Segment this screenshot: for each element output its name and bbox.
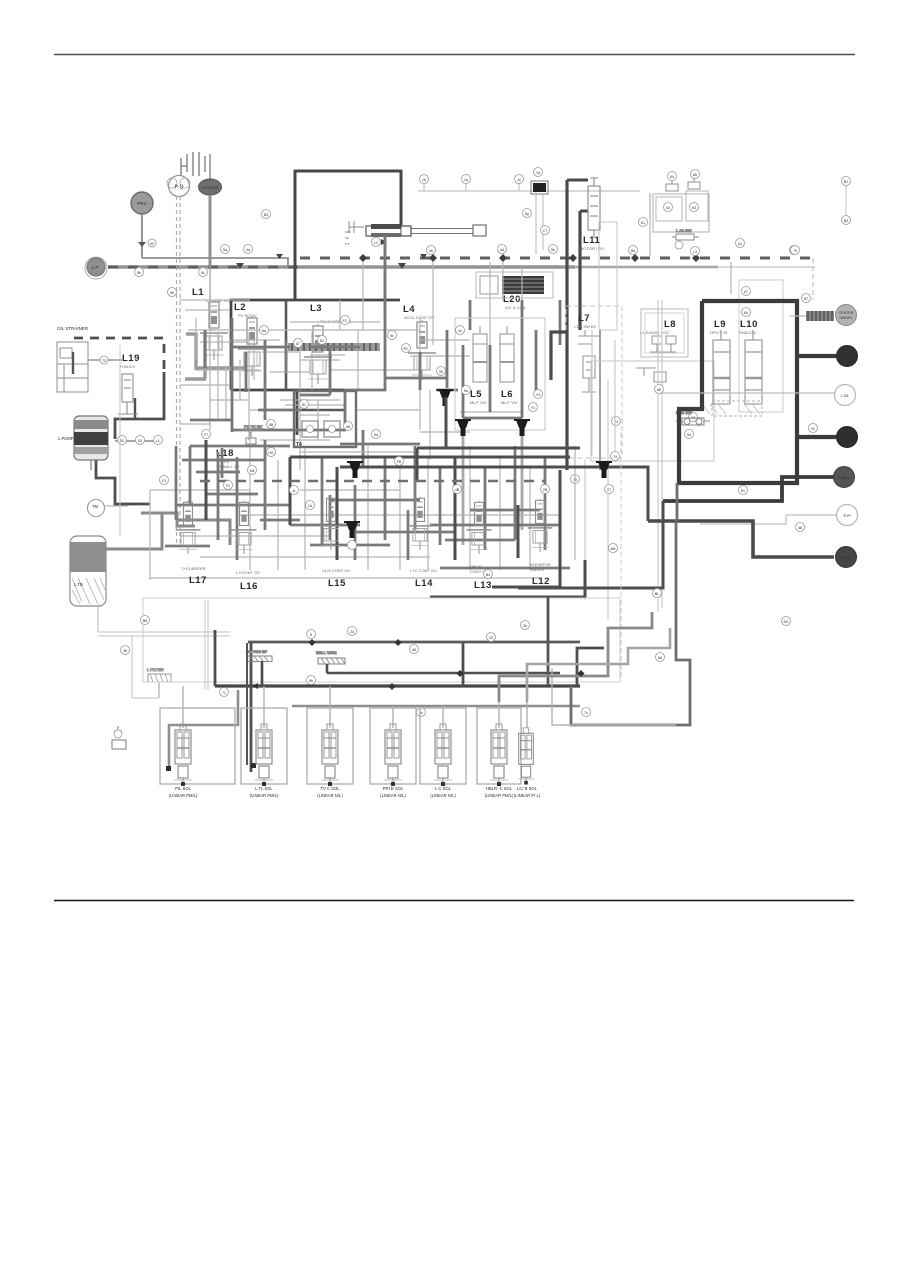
svg-text:SWIVEL: SWIVEL (530, 567, 546, 572)
motor TM (88, 500, 105, 517)
wire pilot dashed band2 (200, 480, 545, 483)
svg-text:50: 50 (120, 439, 124, 443)
svg-text:· ·: · · (345, 241, 349, 246)
L11 box outline (599, 222, 617, 330)
hose plug circle1 (790, 311, 834, 321)
wire P.Q drop dashed ladder (177, 196, 181, 545)
svg-text:61: 61 (641, 221, 645, 225)
wire stair light (552, 668, 676, 725)
wire stair loop gray (571, 483, 690, 725)
svg-text:46: 46 (412, 648, 416, 652)
drain mark (112, 726, 126, 749)
svg-text:MOTOR I GV: MOTOR I GV (580, 246, 604, 251)
svg-text:L C SOL: L C SOL (435, 786, 452, 791)
svg-text:9c: 9c (390, 334, 394, 338)
wires mesh band2 light (150, 430, 575, 580)
port 97 (462, 386, 471, 395)
svg-text:PR TK BK: PR TK BK (244, 424, 262, 429)
wire bell trunk (327, 664, 560, 673)
engine stub pipes (181, 152, 210, 180)
svg-text:CV/TGS BP: CV/TGS BP (246, 649, 268, 654)
svg-text:5a: 5a (223, 248, 227, 252)
valve L14 (408, 497, 433, 550)
svg-text:B4: B4 (264, 213, 268, 217)
port 94b (685, 430, 694, 439)
wire upper pilot line (142, 258, 288, 267)
port 60b (742, 308, 751, 317)
motor circle7 (836, 547, 857, 568)
port 23 (487, 633, 496, 642)
svg-text:(LINEAR N/L): (LINEAR N/L) (317, 793, 343, 798)
solenoid valve black F (344, 522, 360, 538)
svg-text:8a: 8a (631, 249, 635, 253)
box sol1 (160, 708, 235, 784)
svg-text:(LINEAR PM/L): (LINEAR PM/L) (169, 793, 198, 798)
bottom horizontal rule (54, 900, 854, 902)
svg-text:BN: BN (611, 547, 616, 551)
svg-text:B6: B6 (143, 619, 147, 623)
wire thick boom trunk (295, 171, 401, 300)
valve L3 (304, 324, 332, 384)
svg-text:T+CL/BDFER: T+CL/BDFER (181, 566, 206, 571)
port L2a (372, 238, 381, 247)
wire stair S2 (527, 628, 670, 702)
svg-text:L1/S SW BV: L1/S SW BV (574, 324, 597, 329)
svg-text:1a: 1a (464, 178, 468, 182)
wire pump port row (115, 440, 161, 442)
wire return trunk dark (215, 684, 580, 687)
condenser L20 (476, 272, 553, 298)
svg-text:SWIVEL: SWIVEL (839, 316, 853, 320)
svg-text:4B: 4B (269, 423, 274, 427)
wire L7 inner riser (599, 330, 601, 470)
svg-text:TV C SOL: TV C SOL (320, 786, 340, 791)
wires mesh band1 light (180, 193, 731, 470)
svg-text:60: 60 (150, 242, 154, 246)
svg-text:BG: BG (783, 620, 788, 624)
port 1d (534, 168, 543, 177)
box L5 L6 (455, 318, 545, 430)
solenoid HBLR (490, 724, 508, 786)
check valve block (533, 183, 546, 192)
port 66 (691, 170, 700, 179)
bar L3 striped (288, 343, 380, 351)
svg-text:L.TB: L.TB (74, 582, 83, 587)
port 34b (114, 730, 122, 738)
box sol4 (370, 708, 416, 784)
port Y2 (689, 413, 698, 422)
port 64 (668, 172, 677, 181)
valve L8 parts (636, 336, 676, 382)
wire pump outlet trunk (108, 265, 575, 268)
cylinder left stubs (345, 221, 364, 246)
svg-text:74: 74 (613, 455, 617, 459)
svg-text:L8: L8 (664, 319, 676, 330)
wire strainer to block (88, 359, 122, 361)
svg-text:27: 27 (607, 488, 611, 492)
junction diamonds on trunk (359, 254, 700, 262)
wire stair 577 (577, 648, 604, 686)
solenoid LC (434, 724, 452, 786)
wire trunk branch left (231, 300, 400, 390)
port 50 (118, 436, 127, 445)
wire light risers L7 (585, 330, 615, 620)
svg-text:L5: L5 (470, 389, 482, 400)
box sol2 (241, 708, 287, 784)
cylinder L5 pair (473, 326, 514, 382)
wires mesh band2 dark (206, 397, 663, 597)
svg-text:4d: 4d (500, 248, 504, 252)
port 1c (515, 175, 524, 184)
wire L2 frame bottom (231, 389, 345, 392)
wire stair right dark (547, 597, 550, 685)
wire pilot risers (424, 183, 519, 191)
svg-text:73: 73 (102, 359, 106, 363)
gauge P.Q (169, 176, 190, 197)
assorted port labels (121, 210, 791, 662)
svg-text:LC/ B SOL: LC/ B SOL (517, 786, 538, 791)
wire branch swing motor (797, 354, 836, 358)
wire L11 feed (567, 180, 588, 211)
manifold top fittings (666, 177, 700, 191)
wire light circle6 (700, 515, 836, 524)
port 24 (348, 627, 357, 636)
shuttle L13SW (676, 410, 710, 425)
bell valve (316, 650, 345, 664)
wires mesh band2 medium (165, 440, 570, 568)
motor circle2 (837, 346, 858, 367)
svg-text:PRI B SOL: PRI B SOL (383, 786, 404, 791)
wire trunk dark dashes (108, 266, 300, 269)
port 61 (639, 218, 648, 227)
wire L1 gray wrap (185, 334, 246, 379)
port 83 (629, 246, 638, 255)
svg-text:L2: L2 (374, 241, 378, 245)
port 57 (790, 246, 799, 255)
svg-text:(LINEAR P/ L): (LINEAR P/ L) (514, 793, 541, 798)
svg-text:23: 23 (489, 636, 493, 640)
valve L17 (176, 501, 201, 554)
wire PRV drop (141, 214, 143, 258)
manifold cell 1 (656, 197, 682, 221)
valve L15 (319, 497, 344, 550)
svg-text:H BLK/V: H BLK/V (120, 364, 136, 369)
wire trunk light continuation (575, 266, 718, 269)
port 7c (582, 708, 591, 717)
port 75 (571, 475, 580, 484)
wire thick L3 stub (551, 332, 567, 380)
pump L.P (85, 257, 107, 279)
port 62 (664, 203, 673, 212)
wire light circle3 (660, 392, 835, 394)
solenoid PRIB (384, 724, 402, 786)
svg-text:L13: L13 (474, 580, 492, 591)
svg-text:9A: 9A (658, 656, 663, 660)
wire L19 valve drop (134, 398, 136, 419)
svg-text:4B: 4B (455, 488, 460, 492)
svg-text:4c: 4c (458, 329, 462, 333)
wire pump lines (106, 513, 230, 549)
svg-text:L+C CONT GV: L+C CONT GV (410, 568, 437, 573)
oil cooler (199, 179, 222, 195)
solenoid TVC (321, 724, 339, 786)
port 8y (523, 209, 532, 218)
svg-text:L2: L2 (234, 302, 246, 313)
svg-text:F2: F2 (226, 484, 230, 488)
svg-text:(LINEAR N/L): (LINEAR N/L) (430, 793, 456, 798)
wire branch circle4 (797, 435, 836, 439)
port 91 (809, 424, 818, 433)
svg-text:T.MO R: T.MO R (841, 436, 854, 440)
svg-text:(LINEAR PM/L): (LINEAR PM/L) (485, 793, 514, 798)
box sol3 (307, 708, 353, 784)
wire return trunk gray (292, 705, 580, 708)
svg-text:HBLR- C SOL: HBLR- C SOL (486, 786, 513, 791)
svg-text:1A: 1A (308, 504, 313, 508)
solenoid PIL (174, 724, 192, 786)
svg-text:62: 62 (666, 206, 670, 210)
port Y1 (529, 403, 538, 412)
solenoid LTL (255, 724, 273, 786)
swing cylinder assembly (366, 225, 486, 236)
box L7 (566, 306, 622, 458)
svg-text:R.PI: R.PI (844, 514, 851, 518)
wire right dashed drop (812, 258, 814, 300)
gauge circle6 (837, 505, 858, 526)
wire cooler drop (209, 195, 212, 267)
svg-text:4b: 4b (429, 249, 433, 253)
svg-text:5b: 5b (551, 248, 555, 252)
svg-text:1d: 1d (536, 171, 540, 175)
svg-text:9d: 9d (374, 433, 378, 437)
svg-text:L3: L3 (693, 250, 697, 254)
svg-text:L14: L14 (415, 578, 433, 589)
svg-text:B4: B4 (486, 573, 490, 577)
svg-text:FC: FC (343, 319, 348, 323)
wire left riser dark (215, 630, 463, 772)
svg-text:2B: 2B (543, 488, 548, 492)
hydraulic tank (70, 536, 106, 606)
oil strainer (57, 342, 88, 392)
svg-text:71: 71 (222, 691, 226, 695)
valve L7 parts (578, 330, 600, 392)
svg-text:9b: 9b (309, 679, 313, 683)
motor circle1 center swivel (836, 305, 857, 326)
motor circle5 (834, 467, 855, 488)
svg-text:64: 64 (670, 175, 674, 179)
port 48b (796, 523, 805, 532)
port 34 (348, 541, 357, 550)
svg-text:L6: L6 (501, 389, 513, 400)
port 44 (498, 245, 507, 254)
port 63 (690, 203, 699, 212)
svg-text:B3: B3 (844, 219, 848, 223)
port 53 (136, 436, 145, 445)
svg-text:L3: L3 (310, 303, 322, 314)
cylinder L9 (713, 330, 730, 404)
main pump L.PUMP (58, 416, 108, 460)
svg-text:L1 S/ASSY LGV: L1 S/ASSY LGV (640, 330, 669, 335)
svg-text:79: 79 (793, 249, 797, 253)
svg-text:1b: 1b (422, 178, 426, 182)
svg-text:A1: A1 (738, 242, 742, 246)
svg-text:L19: L19 (122, 353, 140, 364)
block L19 border (74, 338, 164, 372)
port 60 (148, 239, 156, 247)
svg-text:CL/S CONT GV: CL/S CONT GV (322, 568, 350, 573)
box L8 (641, 309, 688, 357)
wire tank return light (119, 345, 121, 536)
svg-text:Y3: Y3 (536, 393, 540, 397)
svg-text:9a: 9a (464, 389, 468, 393)
wire sol risers (183, 686, 527, 728)
cylinder L10 (745, 330, 762, 404)
svg-text:7c: 7c (584, 711, 588, 715)
port 65 (675, 241, 683, 249)
wire pump drain (90, 460, 92, 470)
wire swing drop (384, 236, 387, 318)
wires mesh band1 medium (190, 235, 560, 545)
cylinder head block (371, 224, 401, 229)
svg-text:87: 87 (296, 342, 300, 346)
port L3c (691, 247, 700, 256)
svg-text:BELL V/GN: BELL V/GN (316, 650, 337, 655)
svg-text:66: 66 (693, 173, 697, 177)
box sol5 (420, 708, 466, 784)
valve L19 body (118, 374, 138, 414)
svg-text:L1: L1 (192, 287, 204, 298)
filter cap (240, 424, 262, 444)
port 85 (655, 385, 664, 394)
svg-text:M4: M4 (250, 469, 255, 473)
svg-text:CENTER: CENTER (839, 311, 854, 315)
box lower region (143, 598, 620, 682)
solenoid valve black D (347, 462, 363, 478)
wire L3 bottom bar (297, 409, 345, 411)
wire cushion stem (261, 661, 264, 686)
svg-text:91: 91 (811, 427, 815, 431)
wire return trunk upper (248, 641, 580, 644)
port 73 (100, 356, 108, 364)
port B1 (842, 177, 851, 186)
valve block T4 loop (294, 391, 356, 447)
svg-text:82: 82 (320, 339, 324, 343)
port 71 (220, 688, 229, 697)
svg-text:53: 53 (138, 439, 142, 443)
svg-text:67: 67 (744, 290, 748, 294)
svg-text:(LINEAR PM/L): (LINEAR PM/L) (250, 793, 279, 798)
svg-text:85: 85 (657, 388, 661, 392)
svg-text:87: 87 (804, 297, 808, 301)
port Y4 (612, 417, 621, 426)
svg-text:RC: RC (403, 347, 409, 351)
port 48 (427, 246, 436, 255)
svg-text:LL: LL (156, 439, 160, 443)
svg-text:4a: 4a (246, 248, 250, 252)
svg-text:OIL STRAINER: OIL STRAINER (57, 326, 89, 331)
box L8 outer (591, 361, 714, 461)
svg-text:L FILTER: L FILTER (147, 667, 164, 672)
svg-text:PIL SOL: PIL SOL (175, 786, 191, 791)
svg-text:L15: L15 (328, 578, 346, 589)
wire mid riser pair (536, 192, 543, 254)
wire pump drain loop (96, 458, 150, 504)
port 1a (462, 175, 471, 184)
svg-text:8y: 8y (525, 212, 529, 216)
wire light risers center (658, 300, 662, 612)
solenoid valve black C (514, 420, 530, 436)
svg-text:HG: HG (268, 451, 274, 455)
svg-text:6a: 6a (262, 329, 266, 333)
relief valve PRV (131, 192, 153, 214)
wire L3 drop vertical (296, 392, 299, 435)
svg-text:B1: B1 (844, 180, 848, 184)
svg-text:4H: 4H (346, 425, 351, 429)
valve L16 (232, 501, 257, 554)
svg-text:F1: F1 (162, 479, 166, 483)
manifold cell 2 (686, 191, 708, 221)
svg-text:8: 8 (310, 633, 312, 637)
wire stair S1 (499, 612, 652, 702)
valve L1 (200, 300, 228, 360)
svg-text:HPV/T JS: HPV/T JS (710, 330, 728, 335)
svg-text:2b: 2b (523, 624, 527, 628)
svg-text:S.MO: S.MO (842, 355, 851, 359)
svg-text:FB: FB (397, 460, 402, 464)
motor circle4 (837, 427, 858, 448)
svg-text:L9: L9 (714, 319, 726, 330)
valve L4 (408, 320, 436, 380)
wire L7 trunk extension (565, 330, 568, 470)
solenoid LCB (518, 728, 534, 785)
svg-text:L TL SOL: L TL SOL (255, 786, 273, 791)
svg-text:L+/CONT GV: L+/CONT GV (236, 570, 260, 575)
wire left dashed drain (97, 606, 99, 632)
svg-text:L4: L4 (403, 304, 415, 315)
svg-text:PRV: PRV (137, 201, 146, 206)
small shuttle valve (672, 228, 699, 240)
valve L2 (238, 316, 266, 376)
solenoid valve black E (596, 462, 612, 478)
svg-text:L11: L11 (583, 235, 601, 246)
svg-text:L.13 SW: L.13 SW (676, 228, 692, 233)
svg-text:PV RCV/V: PV RCV/V (238, 313, 257, 318)
svg-text:24: 24 (350, 630, 354, 634)
svg-text:8c: 8c (201, 271, 205, 275)
valve L11 body (588, 178, 600, 238)
manifold under cylinders (712, 401, 762, 416)
svg-text:BL: BL (655, 592, 659, 596)
svg-text:94: 94 (687, 433, 691, 437)
valve L11 trunk (567, 180, 580, 330)
filter box (147, 667, 171, 698)
svg-text:48: 48 (798, 526, 802, 530)
svg-text:L17: L17 (189, 575, 207, 586)
svg-text:H.MO: H.MO (841, 556, 851, 560)
wire circle7 stair (648, 521, 834, 557)
box sol6 (477, 708, 521, 784)
svg-text:8b: 8b (137, 271, 141, 275)
wire LTL feed dark (246, 643, 248, 765)
port 46 (410, 645, 419, 654)
valve L13 (467, 501, 492, 554)
port 52 (549, 245, 558, 254)
svg-text:L.OIL: L.OIL (841, 394, 850, 398)
cushion valve (246, 649, 272, 662)
svg-text:L16: L16 (240, 581, 258, 592)
port 87 (802, 294, 811, 303)
svg-text:Y1: Y1 (531, 406, 535, 410)
